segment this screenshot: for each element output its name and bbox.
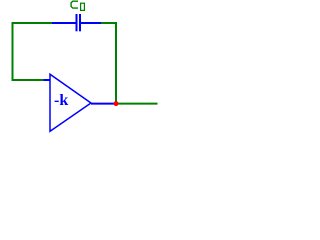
- capacitor C0: [77, 14, 81, 31]
- wire: amplifier output (blue): [91, 103, 116, 105]
- wire: top-right corner and right vertical (green): [101, 23, 116, 104]
- op-amp / gain block -k (triangle): [50, 74, 91, 131]
- wire: blue segment right of capacitor: [81, 22, 101, 24]
- wire: output to the right (green): [116, 103, 158, 105]
- wire: feedback loop left/top (green): [13, 23, 53, 80]
- node: junction dot (red): [114, 101, 119, 106]
- wire: blue input segment into amplifier: [44, 79, 51, 81]
- wire: top blue segment into capacitor: [52, 22, 76, 24]
- svg-text:-k: -k: [54, 92, 68, 109]
- label C0: [71, 1, 84, 10]
